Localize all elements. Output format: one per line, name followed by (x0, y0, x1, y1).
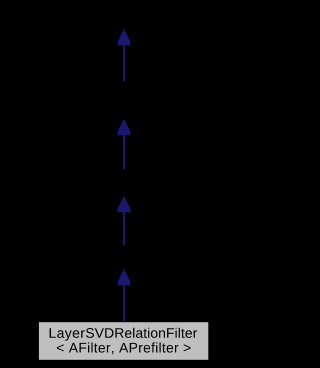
inheritance arrow 2: head (118, 120, 131, 135)
inheritance arrow 3: shaft (123, 211, 125, 245)
inheritance arrow 1 (topmost): head (118, 30, 131, 45)
inheritance arrow 2: shaft (123, 134, 125, 169)
node label line 2 (57, 342, 191, 354)
inheritance arrow 4 (above node box): head (118, 270, 131, 285)
inheritance arrow 1: shaft (123, 44, 125, 81)
node label line 1 (50, 328, 198, 341)
node box LayerSVDRelationFilter (gray fill) (39, 322, 208, 360)
inheritance arrow 4: shaft (123, 284, 125, 321)
inheritance arrow 3: head (118, 197, 131, 212)
